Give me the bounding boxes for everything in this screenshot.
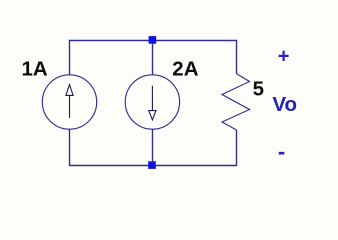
current source I1 arrow (up) <box>66 85 73 118</box>
current source I1 circle <box>42 75 96 129</box>
wire right vertical upper <box>236 40 238 74</box>
wire left vertical upper <box>69 40 71 75</box>
wire middle vertical lower <box>152 129 154 162</box>
wire top horizontal <box>69 40 237 42</box>
current source I2 circle <box>125 75 179 129</box>
node junction bottom <box>148 161 156 169</box>
wire left vertical lower <box>69 129 71 166</box>
svg-text:5: 5 <box>253 78 264 101</box>
svg-text:1A: 1A <box>22 58 48 81</box>
svg-text:+: + <box>278 45 290 67</box>
wire right vertical lower <box>236 130 238 166</box>
svg-text:Vo: Vo <box>272 93 297 116</box>
node junction top <box>149 36 157 44</box>
current source I2 arrow (down) <box>149 86 156 120</box>
resistor R (5 ohm) zigzag <box>222 74 250 130</box>
wire bottom horizontal <box>69 165 237 167</box>
svg-text:-: - <box>278 139 285 164</box>
wire middle vertical upper <box>152 42 154 75</box>
svg-text:2A: 2A <box>172 58 198 81</box>
